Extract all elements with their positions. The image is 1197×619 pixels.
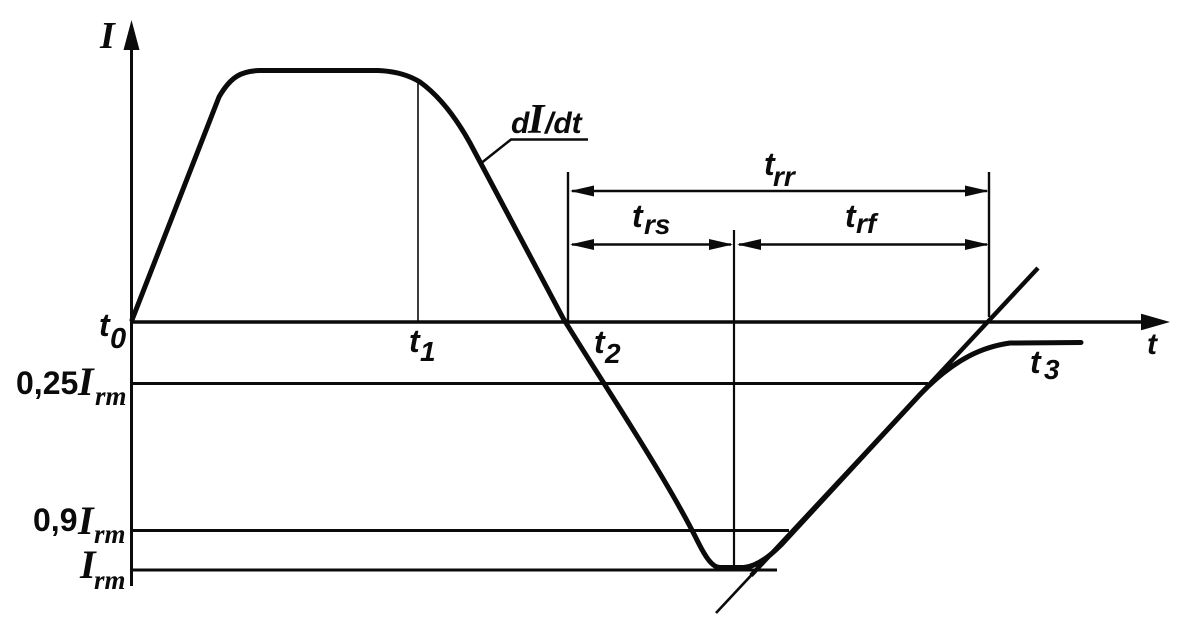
svg-text:rs: rs: [644, 209, 670, 240]
svg-text:rf: rf: [856, 208, 879, 239]
svg-text:2: 2: [604, 338, 621, 369]
svg-text:1: 1: [420, 336, 436, 367]
svg-text:0,25: 0,25: [16, 365, 78, 401]
svg-text:I: I: [99, 15, 116, 57]
svg-text:/dt: /dt: [543, 107, 584, 140]
svg-text:t: t: [632, 198, 644, 234]
svg-text:3: 3: [1044, 354, 1060, 385]
svg-text:t: t: [1030, 344, 1042, 380]
svg-text:I: I: [77, 498, 95, 543]
svg-text:rm: rm: [95, 381, 127, 411]
svg-text:rm: rm: [94, 519, 126, 549]
svg-text:0,9: 0,9: [33, 502, 77, 538]
svg-text:I: I: [77, 359, 95, 404]
svg-text:rr: rr: [773, 161, 797, 192]
svg-text:I: I: [527, 97, 546, 143]
svg-text:0: 0: [110, 323, 126, 355]
svg-text:rm: rm: [94, 565, 126, 595]
